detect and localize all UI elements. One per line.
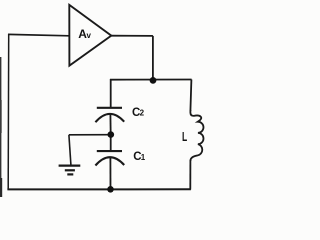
wire bottom horizontal bbox=[7, 188, 191, 190]
wire inductor branch top bbox=[190, 80, 191, 112]
wire left vertical (feedback) bbox=[7, 34, 10, 189]
node junction dot middle (C1-C2-ground) bbox=[108, 131, 115, 138]
wire output down to node bbox=[152, 36, 154, 81]
capacitor C1 curved plate bbox=[95, 157, 124, 165]
ground bar 3 bbox=[67, 173, 73, 175]
svg-text:v: v bbox=[87, 31, 92, 40]
wire tank top horizontal bbox=[110, 79, 192, 81]
wire input to amplifier bbox=[8, 34, 69, 35]
svg-text:2: 2 bbox=[140, 109, 145, 118]
wire amplifier output bbox=[111, 35, 153, 37]
wire ground branch vertical bbox=[69, 135, 71, 165]
wire ground branch horizontal bbox=[69, 134, 111, 136]
capacitor C2 curved plate bbox=[95, 114, 124, 122]
wire middle node to C1 bbox=[110, 135, 112, 151]
ground bar 2 bbox=[65, 169, 75, 171]
capacitor C2 straight plate bbox=[97, 107, 122, 109]
node junction dot bottom (tank bottom) bbox=[107, 186, 114, 193]
wire capacitor branch top bbox=[110, 79, 112, 107]
label Av bbox=[78, 27, 91, 41]
op-amp U1 triangle Av bbox=[69, 5, 111, 66]
ground bar 1 bbox=[59, 165, 81, 167]
capacitor C1 straight plate bbox=[97, 150, 122, 152]
svg-text:1: 1 bbox=[141, 153, 146, 162]
label C1 bbox=[133, 151, 145, 163]
wire C1 to bottom node bbox=[109, 157, 111, 190]
wire C2 to middle node bbox=[109, 114, 111, 135]
wire inductor branch bottom bbox=[189, 160, 191, 190]
node junction dot top (amp output to tank) bbox=[150, 77, 157, 84]
svg-text:L: L bbox=[182, 130, 187, 144]
label C2 bbox=[132, 107, 145, 119]
inductor L coil bbox=[190, 110, 203, 161]
